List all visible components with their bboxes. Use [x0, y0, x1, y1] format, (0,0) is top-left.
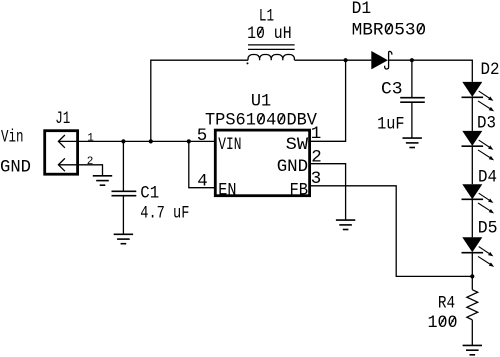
wire R4 to ground: [471, 320, 473, 346]
wire Vin net J1.1 to U1 VIN: [79, 140, 215, 142]
slashes on zeros of TPS61040DBV: [259, 114, 264, 123]
wire D5 to R4: [471, 253, 473, 290]
svg-text:SW: SW: [286, 135, 309, 155]
svg-text:2: 2: [311, 147, 322, 167]
svg-text:100: 100: [428, 313, 458, 333]
diode D1 (schottky): [371, 51, 392, 69]
wire D4 to D5: [471, 199, 473, 237]
svg-text:5: 5: [197, 126, 208, 146]
svg-text:GND: GND: [277, 157, 308, 177]
junction node L1 riser/Vin: [149, 139, 153, 143]
junction node C1/Vin: [121, 139, 125, 143]
svg-text:J1: J1: [55, 109, 70, 129]
ground below C3: [403, 138, 422, 147]
slashes on zeros of MBR0530: [386, 24, 391, 33]
svg-text:D2: D2: [481, 60, 500, 80]
ground below U1 GND pin: [336, 220, 355, 229]
svg-text:C1: C1: [140, 183, 159, 203]
ground below C1: [114, 234, 133, 243]
resistor R4: [467, 290, 478, 320]
wire D1 cathode to LED string top: [389, 60, 472, 82]
ground below R4: [463, 345, 482, 354]
svg-text:3: 3: [311, 169, 322, 189]
svg-text:2: 2: [87, 156, 94, 168]
wire C1 bottom lead: [122, 196, 124, 234]
svg-text:TPS61040DBV: TPS61040DBV: [205, 111, 317, 131]
junction node EN branch/Vin: [187, 139, 191, 143]
svg-text:1uF: 1uF: [377, 115, 405, 135]
svg-text:D3: D3: [477, 114, 496, 134]
wire C3 bottom lead: [411, 102, 413, 138]
wire J1.2 to ground: [79, 165, 103, 176]
junction node C3/top net: [410, 58, 414, 62]
wire C3 top lead: [411, 60, 413, 97]
wire FB pin to LED string bottom: [310, 186, 473, 277]
wire SW pin to top net: [310, 60, 346, 141]
slash on zero of 10 uH: [258, 27, 263, 36]
LED D4: [462, 184, 495, 213]
wire D3 to D4: [471, 146, 473, 184]
wire Vin riser to L1 left: [151, 60, 248, 141]
IC U1: [215, 130, 309, 196]
svg-text:R4: R4: [438, 293, 455, 313]
svg-text:D5: D5: [478, 219, 498, 239]
wire D2 to D3: [471, 97, 473, 131]
wire L1 to D1 anode: [295, 59, 372, 61]
capacitor C1: [112, 191, 137, 195]
svg-text:10 uH: 10 uH: [247, 24, 292, 44]
svg-text:1: 1: [311, 124, 322, 144]
capacitor C3: [400, 98, 425, 103]
connector J1: [45, 131, 79, 175]
LED D2: [462, 82, 495, 112]
slashes on zeros of 100: [440, 317, 445, 326]
svg-text:MBR0530: MBR0530: [352, 20, 427, 40]
svg-text:FB: FB: [290, 181, 309, 201]
LED D5: [462, 237, 495, 267]
svg-text:D1: D1: [352, 0, 372, 19]
inductor L1: [247, 45, 295, 65]
svg-text:C3: C3: [381, 79, 403, 99]
junction node FB/LED string: [470, 274, 474, 278]
wire C1 top lead: [122, 141, 124, 191]
svg-text:1: 1: [87, 133, 94, 145]
ground near J1 pin2: [93, 176, 112, 185]
wire EN branch: [189, 141, 216, 187]
svg-text:VIN: VIN: [218, 135, 241, 155]
svg-text:Vin: Vin: [1, 127, 24, 147]
svg-text:EN: EN: [218, 181, 236, 201]
svg-text:U1: U1: [251, 91, 271, 111]
wire GND pin to ground: [310, 164, 346, 220]
svg-text:D4: D4: [478, 167, 497, 187]
svg-text:4.7 uF: 4.7 uF: [140, 204, 189, 224]
junction node SW/top net: [344, 58, 348, 62]
svg-text:GND: GND: [0, 157, 31, 177]
svg-text:4: 4: [197, 171, 208, 191]
LED D3: [462, 131, 495, 161]
